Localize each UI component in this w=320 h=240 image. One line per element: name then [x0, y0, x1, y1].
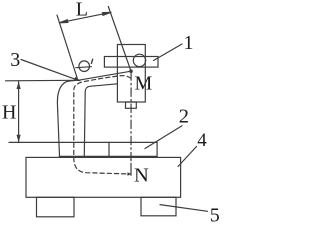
H bottom arrowhead — [17, 135, 21, 143]
H top extension line — [6, 79, 77, 82]
bar (handle, part 1) — [104, 57, 158, 68]
wire centerline end segment at N — [130, 163, 132, 175]
L extension line left — [57, 15, 78, 80]
leader for label 2 — [145, 126, 182, 149]
svg-text:5: 5 — [210, 204, 220, 226]
pin O circle — [133, 54, 145, 66]
frame inner contour — [84, 84, 117, 157]
svg-text:2: 2 — [179, 106, 189, 128]
worktable bottom line — [59, 155, 157, 157]
svg-text:1: 1 — [184, 32, 194, 54]
worktable right edge — [156, 142, 158, 157]
svg-text:N: N — [134, 164, 149, 186]
pivot O' prime tick — [91, 59, 92, 63]
leader for label 1 — [154, 44, 183, 61]
L extension line right — [108, 7, 131, 72]
svg-text:M: M — [135, 73, 153, 95]
svg-text:H: H — [2, 102, 16, 124]
worktable slot line — [108, 142, 110, 157]
node N arrowhead of loop — [127, 172, 131, 175]
node M dot — [129, 69, 133, 73]
wire dashed force loop M->frame->N — [74, 76, 131, 174]
svg-text:3: 3 — [10, 49, 20, 71]
leader for label 4 — [178, 147, 197, 167]
pivot O' diameter line — [76, 67, 92, 68]
wire dash-dot centerline M-N — [130, 72, 132, 161]
right foot (part 5) — [141, 197, 176, 216]
leader 3 arrowhead — [74, 77, 81, 82]
H top arrowhead — [17, 82, 21, 90]
left foot (part 5) — [37, 197, 75, 217]
worktable top line (part 2) + H extension — [9, 141, 157, 143]
leader for label 3 — [21, 60, 78, 81]
dimension L right arrowhead — [103, 12, 112, 15]
dimension L left arrowhead — [59, 20, 68, 23]
svg-text:4: 4 — [197, 130, 207, 151]
leader for label 5 — [160, 205, 208, 212]
punch tip — [126, 102, 137, 108]
frame outer contour (column + arm top edge, part 3) — [57, 71, 131, 156]
dimension H line — [18, 82, 20, 143]
svg-text:L: L — [76, 0, 88, 20]
ram block — [117, 45, 145, 103]
base block (part 4) — [26, 157, 181, 197]
pivot O' circle — [79, 61, 90, 72]
dimension L line — [59, 12, 111, 22]
